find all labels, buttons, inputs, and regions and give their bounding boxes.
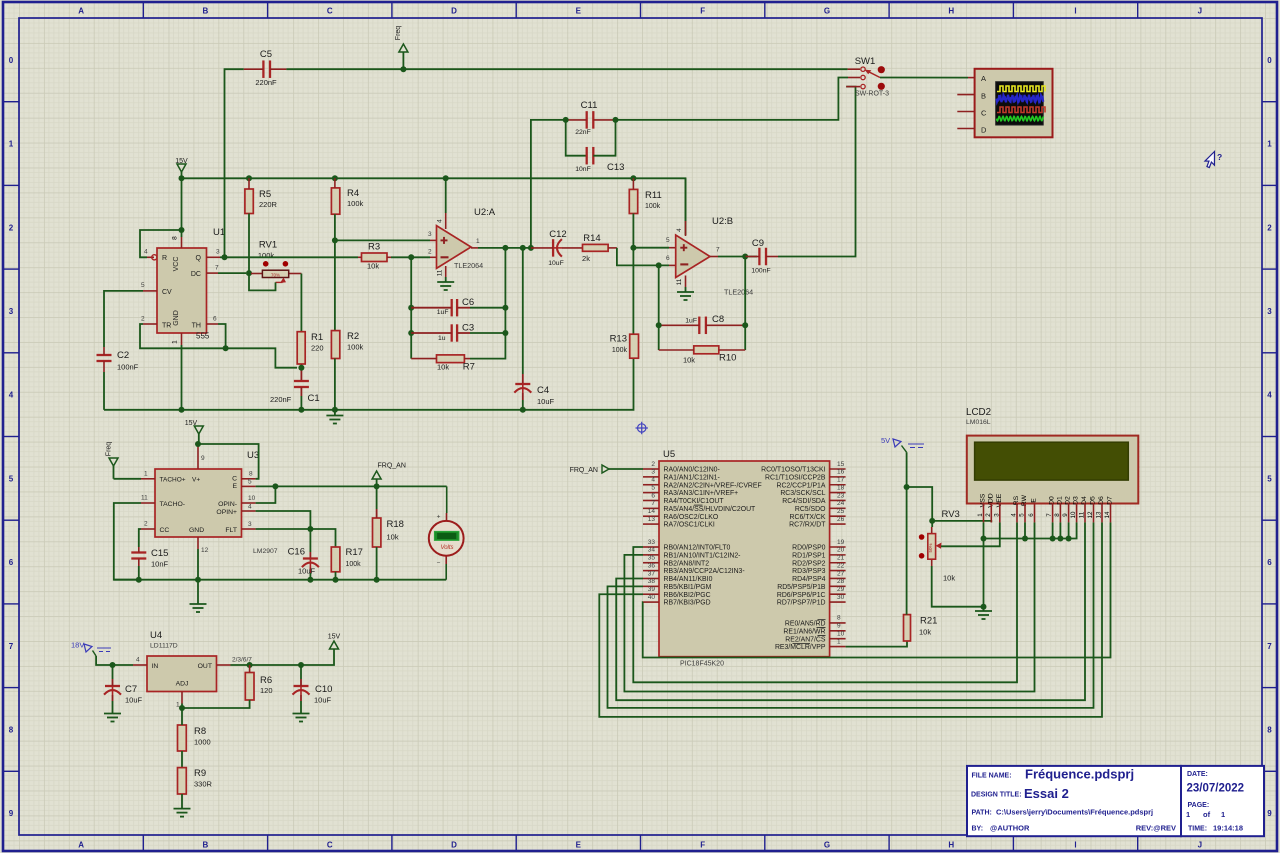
svg-text:RE2/AN7/CS: RE2/AN7/CS	[785, 636, 826, 643]
svg-text:B: B	[981, 91, 986, 100]
svg-text:PATH:: PATH:	[972, 810, 992, 817]
svg-text:−: −	[437, 560, 441, 567]
svg-text:3: 3	[216, 249, 220, 256]
wire bottom ground rail	[104, 358, 634, 410]
svg-text:22nF: 22nF	[575, 129, 591, 136]
svg-text:G: G	[824, 7, 830, 16]
svg-text:R18: R18	[387, 519, 404, 530]
svg-text:C3: C3	[462, 323, 474, 334]
svg-text:6: 6	[213, 316, 217, 323]
svg-text:23: 23	[837, 492, 845, 499]
svg-text:FLT: FLT	[225, 527, 237, 534]
svg-text:2: 2	[144, 521, 148, 528]
svg-text:1: 1	[9, 140, 14, 149]
resistor R9 330R	[178, 768, 187, 794]
wire +input U2:A	[335, 239, 430, 241]
svg-text:6: 6	[1267, 558, 1272, 567]
svg-text:2: 2	[9, 223, 14, 232]
svg-text:C4: C4	[537, 385, 549, 396]
svg-text:RC7/RX/DT: RC7/RX/DT	[789, 522, 826, 529]
svg-text:Essai 2: Essai 2	[1024, 786, 1069, 801]
svg-text:1000: 1000	[194, 738, 211, 747]
svg-text:17: 17	[837, 477, 845, 484]
svg-text:8: 8	[9, 725, 14, 734]
svg-text:5: 5	[1267, 474, 1272, 483]
svg-text:LCD2: LCD2	[966, 407, 991, 418]
junction ADJ node	[179, 705, 185, 711]
svg-text:R21: R21	[920, 616, 937, 627]
wire RW drop	[1024, 522, 1026, 538]
svg-text:R8: R8	[194, 726, 206, 737]
wire GND pin1 drop	[181, 345, 183, 410]
regulator U4 LD1117D	[147, 656, 217, 692]
wire ADJ stub	[181, 704, 183, 709]
svg-text:VCC: VCC	[173, 257, 180, 272]
wire RV1 right to R1	[300, 274, 302, 332]
potentiometer RV3 10k	[931, 527, 933, 534]
svg-text:27: 27	[837, 570, 845, 577]
svg-text:C15: C15	[151, 548, 168, 559]
junction C7 node	[110, 662, 116, 668]
wire C5 to SW1	[286, 68, 847, 70]
svg-text:12: 12	[1087, 511, 1094, 518]
wire RB0 to LCD RS	[633, 522, 1017, 682]
junction fb/C6	[408, 305, 414, 311]
svg-text:10k: 10k	[437, 363, 449, 372]
svg-text:C11: C11	[581, 100, 598, 111]
junction GND rail U1	[179, 407, 185, 413]
wire LCD ground bus	[983, 522, 985, 606]
svg-text:E: E	[1031, 498, 1038, 503]
svg-text:C:\Users\jerry\Documents\Fréqu: C:\Users\jerry\Documents\Fréquence.pdspr…	[996, 808, 1153, 817]
junction R11/+in	[630, 245, 636, 251]
svg-text:Fréquence.pdsprj: Fréquence.pdsprj	[1025, 767, 1134, 782]
op IC U3 LM2907	[155, 469, 242, 537]
svg-text:R11: R11	[645, 190, 662, 201]
svg-text:2: 2	[428, 248, 432, 255]
svg-text:B: B	[203, 841, 209, 850]
wire 5V to RV3/VDD	[907, 487, 933, 527]
svg-text:J: J	[1198, 841, 1202, 850]
svg-text:C7: C7	[125, 684, 137, 695]
svg-text:220nF: 220nF	[270, 395, 292, 404]
svg-text:6: 6	[9, 558, 14, 567]
wire R1 to C1	[300, 364, 302, 381]
svg-text:2: 2	[985, 513, 992, 517]
svg-text:10nF: 10nF	[151, 560, 169, 569]
terminal FRQ_AN	[372, 471, 381, 479]
svg-text:C: C	[327, 841, 333, 850]
svg-text:TLE2064: TLE2064	[724, 288, 753, 297]
svg-text:RC6/TX/CK: RC6/TX/CK	[790, 514, 826, 521]
wire 18V to IN	[96, 656, 133, 665]
wire C4 drop	[522, 248, 524, 374]
svg-text:TACHO+: TACHO+	[160, 477, 186, 484]
svg-text:28: 28	[837, 578, 845, 585]
ground symbol on rail	[326, 415, 343, 417]
wire OUT to 15V	[231, 649, 335, 665]
svg-text:B: B	[203, 7, 209, 16]
voltmeter Volts	[446, 486, 448, 513]
svg-text:TACHO-: TACHO-	[160, 501, 186, 508]
op-amp U2:A TLE2064	[437, 226, 472, 269]
svg-text:26: 26	[837, 516, 845, 523]
junction C8 left	[656, 322, 662, 328]
svg-text:D: D	[981, 125, 987, 134]
junction R2 rail	[332, 407, 338, 413]
wire TH drop	[218, 324, 226, 348]
svg-text:6: 6	[1028, 513, 1035, 517]
svg-text:of: of	[1203, 810, 1211, 819]
svg-text:7: 7	[215, 265, 219, 272]
junction OPIN+/FLT	[307, 526, 313, 532]
junction Q	[222, 254, 228, 260]
wire R4 to R2 divider	[334, 214, 336, 330]
wire D2 drop	[1068, 522, 1070, 538]
svg-text:RB2/AN8/INT2: RB2/AN8/INT2	[664, 560, 710, 567]
terminal Freq top	[399, 44, 408, 52]
wire RB6 to LCD D6	[599, 522, 1102, 717]
svg-text:RD6/PSP6/P1C: RD6/PSP6/P1C	[777, 592, 826, 599]
svg-text:RC2/CCP1/P1A: RC2/CCP1/P1A	[776, 482, 825, 489]
resistor R2 100k	[331, 331, 339, 359]
junction FRQ_AN node	[374, 483, 380, 489]
wire U1 reset loop pin4 to VCC	[140, 230, 182, 257]
junction R1/C1/TR	[298, 365, 304, 371]
svg-text:DESIGN TITLE:: DESIGN TITLE:	[971, 792, 1022, 799]
svg-text:RA0/AN0/C12IN0-: RA0/AN0/C12IN0-	[664, 467, 720, 474]
ground U2:B pin11	[677, 291, 694, 293]
svg-text:Freq: Freq	[395, 26, 402, 41]
svg-text:GND: GND	[173, 310, 180, 326]
wire DC to RV1	[218, 272, 246, 274]
terminal Freq at U3	[109, 458, 118, 466]
svg-text:C: C	[232, 475, 237, 482]
wire R7 right vertical	[470, 248, 505, 359]
junction out/C4	[520, 245, 526, 251]
capacitor C3 1u	[451, 324, 453, 341]
svg-text:R9: R9	[194, 768, 206, 779]
svg-text:Q: Q	[196, 255, 202, 262]
capacitor C5 220nF	[262, 60, 264, 77]
svg-text:100nF: 100nF	[117, 363, 139, 372]
svg-text:10uF: 10uF	[537, 397, 555, 406]
svg-text:10k: 10k	[387, 533, 399, 542]
svg-text:OPIN-: OPIN-	[218, 501, 237, 508]
svg-text:18V: 18V	[71, 641, 84, 650]
svg-text:RA2/AN2/C2IN+/VREF-/CVREF: RA2/AN2/C2IN+/VREF-/CVREF	[664, 482, 762, 489]
svg-text:37: 37	[648, 570, 656, 577]
svg-text:4: 4	[676, 228, 683, 232]
capacitor C1 220nF	[294, 380, 309, 382]
svg-text:7: 7	[1267, 642, 1272, 651]
power 15V top-left	[177, 164, 186, 172]
svg-text:9: 9	[201, 455, 205, 462]
svg-text:100k: 100k	[645, 203, 661, 210]
svg-text:A: A	[78, 7, 84, 16]
svg-text:4: 4	[9, 391, 14, 400]
wire fbB left vertical	[658, 265, 660, 350]
junction C15 rail	[136, 577, 142, 583]
svg-text:J: J	[1198, 7, 1202, 16]
junction R18 rail	[374, 577, 380, 583]
wire C11 net to SW1	[616, 78, 849, 120]
wire C2 to ground rail	[103, 372, 105, 410]
svg-text:8: 8	[172, 236, 179, 240]
svg-text:C: C	[981, 108, 987, 117]
svg-text:U2:B: U2:B	[712, 216, 733, 227]
wire 15V rail	[182, 178, 686, 235]
svg-text:RD0/PSP0: RD0/PSP0	[792, 545, 825, 552]
wire U2:A output	[478, 247, 531, 249]
wire RB5 to LCD D5	[608, 522, 1094, 708]
junction C10 top	[298, 662, 304, 668]
svg-text:100k: 100k	[346, 561, 362, 568]
potentiometer RV1 100k	[251, 273, 262, 275]
svg-text:4: 4	[437, 219, 444, 223]
junction E node	[272, 483, 278, 489]
wire FLT to R17	[256, 529, 336, 547]
svg-text:10nF: 10nF	[575, 166, 591, 173]
svg-text:4: 4	[1267, 391, 1272, 400]
svg-text:TIME:: TIME:	[1188, 826, 1207, 833]
svg-text:R3: R3	[368, 242, 380, 253]
svg-text:0: 0	[9, 56, 14, 65]
wire Q riser to C5	[225, 69, 244, 257]
wire feedback left vertical	[410, 257, 412, 358]
svg-text:70%: 70%	[271, 272, 280, 277]
svg-text:FRQ_AN: FRQ_AN	[378, 463, 406, 470]
wire fbB right vertical	[744, 257, 746, 351]
svg-text:23/07/2022: 23/07/2022	[1187, 783, 1245, 795]
wire R8 to R9	[181, 751, 183, 768]
ground C7	[104, 713, 121, 715]
svg-text:8: 8	[837, 615, 841, 622]
svg-text:+: +	[437, 514, 441, 521]
svg-text:11: 11	[437, 269, 444, 276]
wire OPIN- loop	[256, 486, 276, 503]
svg-text:10uF: 10uF	[314, 695, 332, 704]
svg-text:1: 1	[1267, 140, 1272, 149]
svg-text:4: 4	[144, 249, 148, 256]
capacitor C16 10uF	[303, 557, 318, 559]
svg-text:16: 16	[837, 469, 845, 476]
svg-text:FILE NAME:: FILE NAME:	[972, 773, 1012, 780]
power 15V above U3	[194, 426, 203, 434]
svg-text:7: 7	[651, 500, 655, 507]
svg-text:10k: 10k	[683, 356, 695, 365]
svg-text:7: 7	[1046, 513, 1053, 517]
svg-text:2: 2	[141, 316, 145, 323]
svg-text:14: 14	[1104, 511, 1111, 518]
junction TR/TH	[223, 345, 229, 351]
wire rail gnd stub	[334, 410, 336, 416]
wire C13 loop left	[566, 120, 587, 156]
svg-text:8: 8	[249, 470, 253, 477]
svg-text:R17: R17	[346, 547, 363, 558]
svg-text:C13: C13	[607, 162, 624, 173]
svg-text:11: 11	[676, 278, 683, 285]
svg-text:RB1/AN10/INT1/C12IN2-: RB1/AN10/INT1/C12IN2-	[664, 552, 741, 559]
svg-text:PAGE:: PAGE:	[1188, 802, 1210, 809]
capacitor C8 1uF	[698, 317, 700, 335]
junction 15V/R4	[332, 175, 338, 181]
svg-text:25: 25	[837, 508, 845, 515]
ground R9	[174, 808, 191, 810]
svg-text:33: 33	[648, 539, 656, 546]
svg-text:CV: CV	[162, 289, 172, 296]
svg-text:10k: 10k	[367, 262, 379, 271]
svg-text:LM2907: LM2907	[253, 548, 278, 555]
junction Freq/C5 net	[400, 66, 406, 72]
svg-text:Freq: Freq	[106, 442, 113, 457]
svg-text:35: 35	[648, 555, 656, 562]
svg-text:1: 1	[144, 471, 148, 478]
svg-text:5: 5	[651, 484, 655, 491]
svg-text:100k: 100k	[347, 343, 364, 352]
wire RV3 bottom to gnd	[932, 566, 984, 607]
op-amp U2:B TLE2064	[676, 235, 710, 278]
capacitor C11 22nF	[586, 111, 588, 128]
svg-text:C6: C6	[462, 297, 474, 308]
junction fbR/C6	[502, 305, 508, 311]
svg-text:RB4/AN11/KBI0: RB4/AN11/KBI0	[664, 576, 713, 583]
svg-text:R2: R2	[347, 331, 359, 342]
svg-text:LM016L: LM016L	[966, 419, 991, 426]
svg-text:RD2/PSP2: RD2/PSP2	[792, 560, 825, 567]
svg-text:DATE:: DATE:	[1187, 771, 1208, 778]
svg-text:U1: U1	[213, 227, 225, 238]
junction 15V/R5	[246, 175, 252, 181]
svg-text:U4: U4	[150, 630, 162, 641]
svg-text:RB3/AN9/CCP2A/C12IN3-: RB3/AN9/CCP2A/C12IN3-	[664, 568, 745, 575]
svg-text:3: 3	[651, 469, 655, 476]
svg-text:15V: 15V	[185, 420, 198, 427]
svg-text:34: 34	[648, 547, 656, 554]
svg-text:21: 21	[837, 555, 845, 562]
svg-text:H: H	[948, 841, 954, 850]
svg-text:19:14:18: 19:14:18	[1213, 824, 1243, 833]
svg-text:9: 9	[837, 623, 841, 630]
svg-text:RC0/T1OSO/T13CKI: RC0/T1OSO/T13CKI	[761, 467, 825, 474]
svg-text:RB5/KBI1/PGM: RB5/KBI1/PGM	[664, 584, 712, 591]
svg-text:15V: 15V	[175, 158, 188, 165]
junction C4 rail	[520, 407, 526, 413]
svg-text:RD3/PSP3: RD3/PSP3	[792, 568, 825, 575]
svg-text:1: 1	[476, 238, 480, 245]
svg-text:U2:A: U2:A	[474, 207, 496, 218]
svg-text:15V: 15V	[328, 634, 341, 641]
resistor R18 10k	[373, 518, 381, 547]
oscilloscope	[975, 69, 1053, 138]
svg-text:D: D	[451, 841, 457, 850]
junction U3 V+	[195, 441, 201, 447]
svg-text:10uF: 10uF	[298, 567, 316, 576]
junction DC/R5/RV1	[246, 270, 252, 276]
svg-text:555: 555	[196, 332, 210, 341]
svg-text:BY:: BY:	[972, 826, 984, 833]
wire GND12 to rail	[197, 549, 199, 580]
svg-text:1uF: 1uF	[437, 309, 449, 316]
capacitor C10 10uF	[294, 685, 309, 687]
junction fbR/C3	[502, 330, 508, 336]
svg-text:1: 1	[1186, 810, 1190, 819]
svg-text:F: F	[700, 7, 705, 16]
svg-text:RE0/AN5/RD: RE0/AN5/RD	[785, 621, 826, 628]
svg-text:LD1117D: LD1117D	[150, 643, 178, 650]
junction VDD tap	[929, 518, 935, 524]
svg-text:?: ?	[1217, 152, 1222, 162]
wire Q to R3	[225, 256, 359, 258]
svg-text:I: I	[1074, 7, 1076, 16]
svg-text:2k: 2k	[582, 254, 590, 263]
svg-text:22: 22	[837, 562, 845, 569]
svg-text:39: 39	[648, 586, 656, 593]
svg-text:C2: C2	[117, 350, 129, 361]
svg-text:9: 9	[9, 809, 14, 818]
junction 5V node	[904, 484, 910, 490]
svg-text:G: G	[824, 841, 830, 850]
svg-text:PIC18F45K20: PIC18F45K20	[680, 661, 724, 668]
svg-text:2: 2	[651, 461, 655, 468]
svg-text:10: 10	[837, 631, 845, 638]
capacitor C2 100nF	[97, 354, 112, 356]
svg-text:29: 29	[837, 586, 845, 593]
svg-text:4: 4	[651, 477, 655, 484]
svg-text:8: 8	[1267, 725, 1272, 734]
svg-text:2: 2	[1267, 223, 1272, 232]
junction fb/C3	[408, 330, 414, 336]
capacitor C9 100nF	[758, 248, 760, 266]
wire TR loop	[140, 324, 297, 368]
wire LCD gnd row	[984, 522, 1077, 538]
svg-text:RC4/SDI/SDA: RC4/SDI/SDA	[782, 498, 826, 505]
svg-text:13: 13	[648, 516, 656, 523]
svg-text:C: C	[327, 7, 333, 16]
svg-text:18: 18	[837, 484, 845, 491]
svg-text:15: 15	[837, 461, 845, 468]
svg-text:U3: U3	[247, 450, 259, 461]
wire RB4 to LCD D4	[616, 522, 1085, 700]
svg-text:R13: R13	[610, 334, 627, 345]
svg-text:R: R	[162, 255, 167, 262]
svg-text:C9: C9	[752, 238, 764, 249]
junction C8 right	[742, 322, 748, 328]
wire C13 loop right	[593, 120, 615, 156]
svg-text:36: 36	[648, 562, 656, 569]
svg-text:4: 4	[136, 657, 140, 664]
svg-text:1: 1	[172, 340, 179, 344]
svg-text:120: 120	[260, 686, 273, 695]
junction R17 rail	[333, 577, 339, 583]
resistor R14 2k	[583, 244, 609, 251]
svg-text:1: 1	[837, 638, 841, 645]
svg-text:8: 8	[1054, 513, 1061, 517]
svg-text:30: 30	[837, 594, 845, 601]
svg-text:E: E	[576, 7, 582, 16]
resistor R11 100k	[629, 189, 637, 213]
svg-text:F: F	[700, 841, 705, 850]
svg-text:C12: C12	[549, 229, 566, 240]
svg-text:FRQ_AN: FRQ_AN	[570, 467, 598, 474]
svg-text:1u: 1u	[438, 335, 446, 342]
svg-text:1uF: 1uF	[685, 318, 697, 325]
svg-text:C16: C16	[288, 547, 305, 558]
svg-text:RD4/PSP4: RD4/PSP4	[792, 576, 825, 583]
resistor R8 1000	[178, 725, 187, 751]
svg-text:10: 10	[1070, 511, 1077, 518]
svg-text:4: 4	[248, 503, 252, 510]
